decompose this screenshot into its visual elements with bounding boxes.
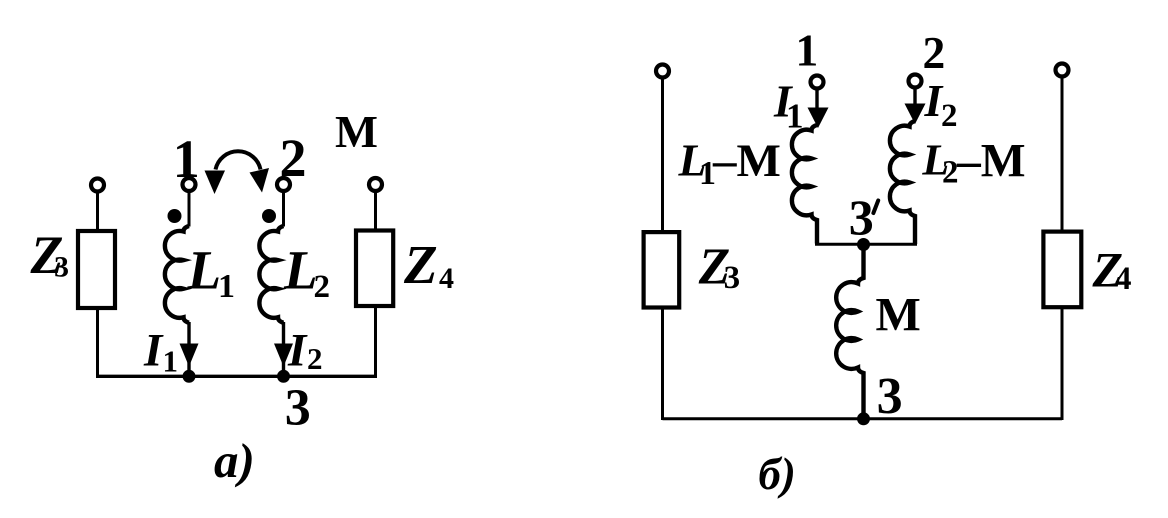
svg-text:1: 1 <box>218 268 235 305</box>
svg-text:1: 1 <box>786 97 804 136</box>
svg-text:4: 4 <box>439 262 454 295</box>
svg-text:2: 2 <box>941 98 958 134</box>
svg-text:2: 2 <box>280 128 307 188</box>
svg-text:4: 4 <box>1115 261 1132 297</box>
svg-text:б): б) <box>758 449 795 499</box>
svg-text:1: 1 <box>163 344 179 379</box>
svg-text:2: 2 <box>923 27 946 78</box>
svg-text:L: L <box>187 240 222 301</box>
svg-text:3: 3 <box>54 251 69 284</box>
svg-text:1: 1 <box>173 129 200 189</box>
svg-text:3: 3 <box>849 189 874 245</box>
svg-text:3: 3 <box>724 260 741 296</box>
svg-text:–M: –M <box>712 135 781 187</box>
svg-text:M: M <box>335 106 378 157</box>
svg-text:1: 1 <box>796 25 819 76</box>
svg-text:a): a) <box>214 433 255 488</box>
svg-text:–M: –M <box>956 136 1026 188</box>
svg-text:M: M <box>876 289 921 342</box>
svg-text:Z: Z <box>403 234 438 295</box>
svg-text:2: 2 <box>307 341 323 376</box>
svg-text:I: I <box>287 325 308 377</box>
svg-text:3: 3 <box>285 380 311 437</box>
svg-text:3: 3 <box>877 368 903 425</box>
svg-text:L: L <box>283 240 318 301</box>
svg-text:2: 2 <box>314 269 331 305</box>
svg-text:I: I <box>143 325 164 377</box>
